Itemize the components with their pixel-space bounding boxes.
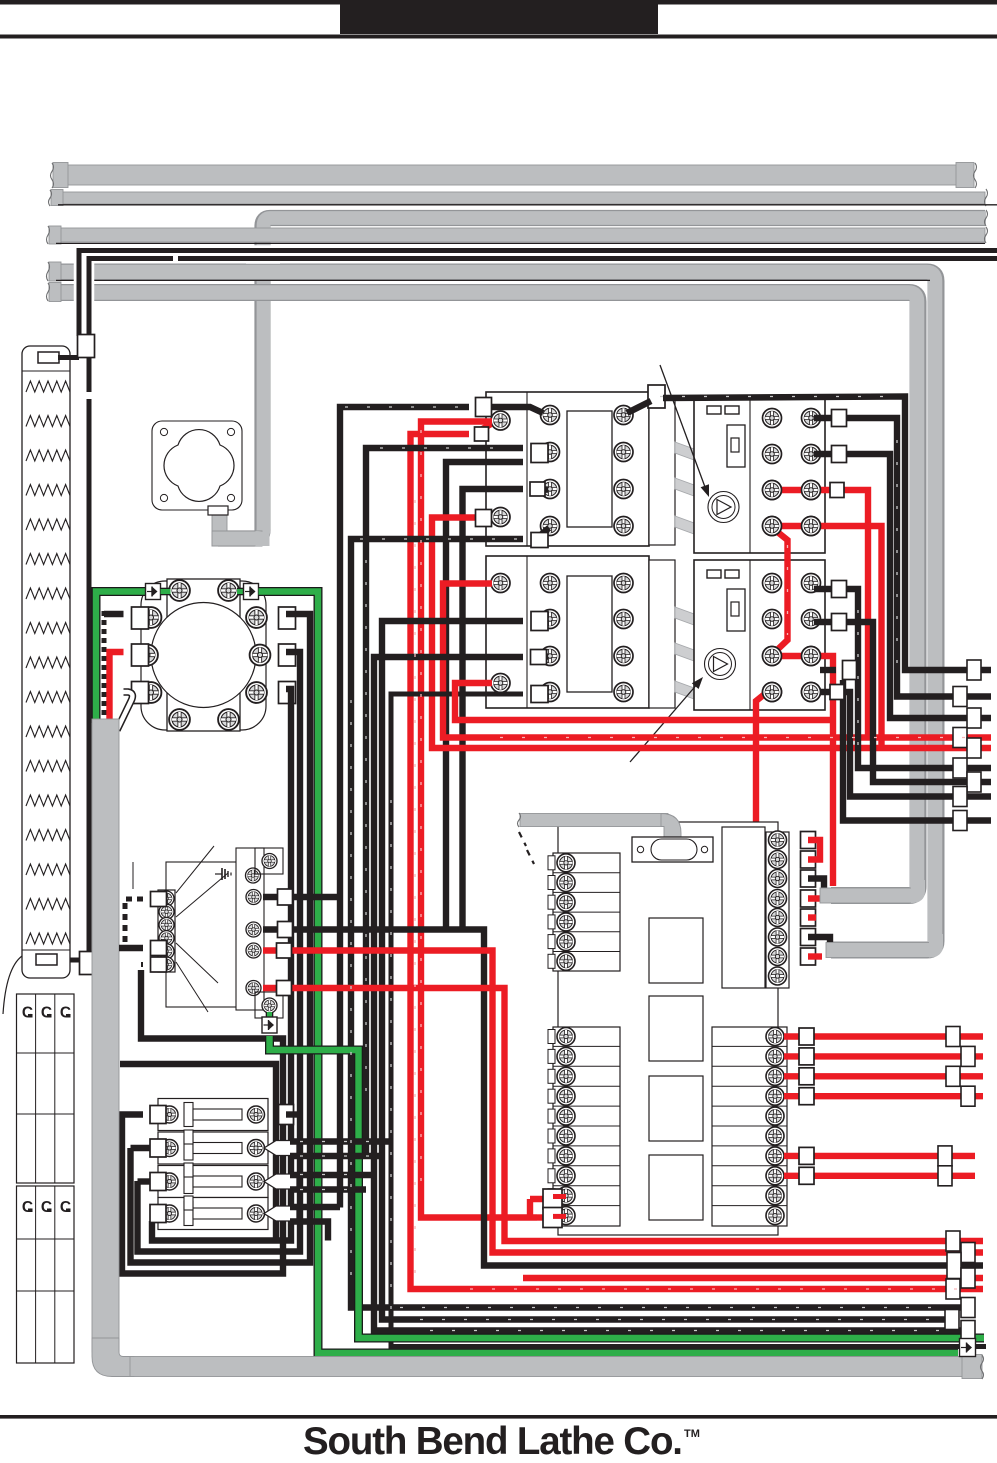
- sub-board green ground connector: [262, 1017, 277, 1033]
- top black feeder wire W2 upper run: [89, 259, 997, 393]
- bottom stub B3 black: [947, 1253, 961, 1279]
- cable gland plate: [632, 837, 713, 862]
- motor left black wire row1: [104, 611, 124, 617]
- OL1 right connector boxes: [832, 410, 847, 427]
- contactor K2 screws right col: [614, 574, 633, 593]
- board upper-left strip tabs: [548, 856, 555, 870]
- right stub J6: [953, 758, 967, 778]
- fuse holder F3 left connector: [150, 1173, 166, 1191]
- contactor K2 screws left col: [541, 574, 560, 593]
- contactor K1 body: [486, 392, 649, 546]
- motor green inline connector right: [244, 584, 259, 600]
- fuse holder F1 clip: [184, 1103, 193, 1127]
- motor ground wire green left riser: [96, 592, 146, 724]
- motor left white wire row3: [117, 692, 132, 730]
- motor center housing: [167, 579, 240, 731]
- wire K1 row1 black to vertical x340: [340, 407, 469, 1208]
- board row6 black into tube2: [808, 937, 830, 947]
- OL2 indicator windows: [707, 570, 721, 578]
- right stub R3: [946, 1066, 960, 1086]
- svg-text:C: C: [22, 1005, 33, 1022]
- contactor K1 screws right col: [614, 406, 633, 425]
- board upper-left terminal strip: [553, 853, 620, 971]
- sub-board outline: [166, 862, 238, 1007]
- clover plate bottom tab: [208, 506, 228, 515]
- sub-board leader lines: [176, 846, 214, 893]
- right stub J7: [967, 772, 981, 792]
- right stub J4 red: [953, 728, 967, 748]
- board lower-right terminal strip: [712, 1027, 787, 1226]
- board upper-right terminal strip: [766, 832, 789, 988]
- motor right connector boxes: [279, 607, 296, 629]
- cable A right cap: [956, 163, 974, 188]
- ballast zigzag elements: [26, 381, 70, 944]
- motor right black wire row2: [138, 652, 301, 1252]
- fuse F1 right wire: [286, 1111, 301, 1117]
- clover mount plate: [152, 421, 242, 510]
- right stub J1: [967, 660, 981, 680]
- OL1 screws left col: [763, 409, 782, 428]
- board gray feed cable: [520, 814, 668, 827]
- K1 coil wire to right drop: [627, 401, 651, 413]
- OL1 row2 black wire right: [814, 454, 991, 718]
- right stub J2: [953, 687, 967, 707]
- dash texture overlays: [345, 406, 465, 408]
- header rule line: [0, 35, 997, 39]
- right stub R5: [938, 1146, 952, 1166]
- ballast top terminal wire: [58, 355, 79, 360]
- motor left red wire row2: [110, 652, 124, 723]
- fuse F2 left wire: [131, 1145, 151, 1151]
- board relay window 1: [649, 918, 703, 983]
- thin rule under cable B: [58, 204, 997, 206]
- fuse F3 lug: [264, 1174, 297, 1189]
- ballast inner top line: [22, 370, 70, 372]
- green wire B run: [270, 1036, 985, 1338]
- motor left connector boxes: [132, 607, 149, 629]
- ballast top terminal lug: [38, 352, 59, 363]
- wire K1 row4 red: [432, 518, 991, 749]
- bottom stub B7 black: [945, 1310, 959, 1330]
- clover plate corner screws: [160, 428, 167, 435]
- bottom stub B6 black: [961, 1298, 975, 1318]
- fuse holder F4 body: [158, 1198, 268, 1230]
- screws redrawn over OL wires: [802, 481, 821, 500]
- top black feeder wire W2 lower run: [55, 399, 89, 960]
- fuse holder F4 left connector: [150, 1205, 166, 1223]
- wire K1 row4 link to screw: [481, 514, 490, 521]
- fuse holder F4 right screw: [248, 1205, 265, 1222]
- clover cutout: [164, 430, 234, 502]
- bottom stub B1 red: [946, 1231, 960, 1251]
- wire K2 row4 black: [391, 694, 986, 1347]
- board row5 red stub: [808, 914, 816, 920]
- sub-board wire to fuse loop: [141, 962, 143, 967]
- sub-board earth symbol: [221, 868, 223, 880]
- right stub J9: [953, 811, 967, 831]
- wire K2 row2 black: [382, 621, 959, 1320]
- bottom stub B2 red: [961, 1243, 975, 1263]
- contactor K1 coil terminal box: [648, 385, 665, 408]
- svg-text:TM: TM: [684, 1428, 700, 1440]
- OL2 row4 black wire right: [814, 692, 991, 797]
- motor ground wire green to right riser: [259, 592, 959, 1354]
- sub-board black wire row929 to x484: [263, 930, 983, 1266]
- right stub R1: [946, 1027, 960, 1047]
- contactor K2 body: [486, 556, 649, 708]
- right stub J3: [967, 708, 981, 728]
- wire K1 row2 black: [366, 448, 523, 1157]
- wire K1 row2 red: [411, 434, 984, 1289]
- cable B horizontal: [58, 192, 985, 204]
- OL2 row4 red drop: [756, 689, 771, 831]
- board lower-left strip tabs: [548, 1030, 555, 1044]
- fuse holder F1 right screw: [248, 1106, 265, 1123]
- cable D left cap: [49, 226, 61, 244]
- OL1 reset switch: [727, 425, 745, 467]
- fuse F3 left wire: [138, 1178, 151, 1184]
- ballast inner bottom line: [22, 949, 70, 951]
- fuse holder F1 body: [158, 1099, 268, 1131]
- board jumper red rows1-2: [808, 840, 820, 860]
- sub-board right terminal stack: [236, 848, 264, 1010]
- contactor K1 coil window: [567, 411, 612, 527]
- right stub R6: [938, 1166, 952, 1186]
- arc from ballast to left margin: [3, 956, 22, 1014]
- svg-text:C: C: [60, 1005, 71, 1022]
- wire red to stub row 1278: [523, 1275, 983, 1281]
- contactor K1 pole column: [649, 397, 675, 545]
- wire K1 row5 black dashed: [351, 539, 975, 1308]
- cable A horizontal: [60, 165, 962, 185]
- ballast top connector box: [78, 335, 95, 358]
- sub-board black wire into conduit: [119, 945, 143, 951]
- box stubs K1 to screws: [538, 449, 548, 456]
- connector boxes K1 left edge: [476, 398, 492, 417]
- overload OL1 body: [694, 396, 825, 553]
- board row3 black into tube1: [808, 879, 824, 892]
- svg-text:C: C: [41, 1199, 52, 1216]
- fuse grid upper table: [17, 994, 75, 1183]
- fuse holder F2 left screw: [161, 1140, 178, 1157]
- sub-board left terminal strip: [158, 890, 175, 972]
- cable C horizontal and riser to clover plate: [218, 218, 985, 539]
- fuse holder F1 cartridge: [193, 1109, 242, 1120]
- board lower-right red wires to right stubs: [784, 1033, 983, 1039]
- OL2 screws left col: [763, 574, 782, 593]
- fuse F2 lug: [264, 1141, 297, 1156]
- wire K1 row3a black: [446, 462, 523, 929]
- connector boxes K2 left edge: [531, 612, 548, 631]
- fuse holder F4 left screw: [161, 1205, 178, 1222]
- wire K2 row1 red: [443, 584, 991, 738]
- sub-board red wire row988: [263, 988, 983, 1241]
- footer rule: [0, 1415, 997, 1419]
- fuse holder F3 cartridge: [193, 1176, 242, 1187]
- K2 mechanical link stripes: [675, 607, 694, 625]
- cable F horizontal with right drop to tube1: [56, 293, 918, 896]
- right stub J5 red: [967, 738, 981, 758]
- gray tube1 to drop1: [820, 888, 912, 903]
- contactor K1 aux screws far-left: [491, 411, 510, 430]
- fuse holder F1 left screw: [161, 1106, 178, 1123]
- board relay window 2: [649, 996, 703, 1061]
- OL2 row3 red wire to board tube1: [777, 656, 833, 886]
- board row4 red from tube1: [808, 895, 833, 901]
- contactor K2 coil window: [567, 576, 612, 692]
- fuse holder F4 cartridge: [193, 1208, 242, 1219]
- overload OL2 body: [694, 560, 825, 710]
- fuse holder F2 left connector: [150, 1139, 166, 1157]
- OL1 row3 red wire right: [777, 490, 868, 738]
- bottom stub B8 black: [961, 1321, 975, 1341]
- cable E left cap: [49, 262, 61, 281]
- board bottom-left red connectors: [530, 1196, 553, 1202]
- contactor K2 aux screws far-left: [491, 574, 510, 593]
- sub-board right connector boxes: [278, 889, 293, 905]
- OL2 screws right col: [802, 574, 821, 593]
- right stub R2: [961, 1046, 975, 1066]
- OL1 indicator windows: [707, 406, 721, 414]
- gray tube2 to drop2: [826, 943, 930, 958]
- fuse F4 lug wires: [290, 1204, 340, 1210]
- board relay window 3: [649, 1076, 703, 1141]
- sub-board left connector boxes: [151, 892, 167, 907]
- overload OL2 divider: [749, 560, 751, 710]
- white casing for feeder crossings: [74, 246, 85, 306]
- fuse holder F3 left screw: [161, 1173, 178, 1190]
- bottom stub B5 red: [946, 1279, 960, 1299]
- green ground connector bottom right: [960, 1339, 976, 1357]
- sub-board dashed wire to conduit: [125, 899, 143, 948]
- bottom stub B4 red: [961, 1268, 975, 1288]
- sub-board green ground drop: [266, 1012, 274, 1018]
- ballast bottom connector box: [80, 952, 97, 975]
- header black title bar: [340, 0, 658, 34]
- svg-text:C: C: [60, 1199, 71, 1216]
- OL2 row2 black wire right: [814, 622, 991, 782]
- right stub R4: [961, 1086, 975, 1106]
- fuse F3 lug wires: [290, 1172, 374, 1178]
- thin rule under cable E: [56, 279, 930, 281]
- cable E horizontal with right drop to tube2: [56, 272, 936, 950]
- board row7 red into tube2: [808, 953, 822, 959]
- OL1 row1 black wire right: [814, 418, 991, 697]
- wire K1 row1 link to screw: [477, 407, 543, 413]
- fuse holder F2 body: [158, 1132, 268, 1164]
- motor conduit bottom elbow: [92, 1338, 134, 1377]
- OL1 screws right col: [802, 409, 821, 428]
- wire K1 row2 link to screw: [479, 424, 491, 431]
- clover plate tube elbow to riser: [212, 531, 262, 546]
- thin rule under cable D: [56, 242, 985, 244]
- svg-text:South Bend Lathe Co.: South Bend Lathe Co.: [303, 1420, 683, 1458]
- motor conduit gray tube: [92, 719, 119, 1352]
- clover plate tube stub down: [212, 510, 227, 546]
- fuse F4 lug: [264, 1206, 297, 1221]
- contactor K1 screws left col: [541, 406, 560, 425]
- wire hop gap on W2: [86, 393, 93, 398]
- terminal board outline: [558, 822, 778, 1235]
- wire K1 row1 red: [421, 422, 537, 1218]
- motor dashed drop to conduit: [102, 611, 107, 723]
- OL2 row1 black wire right: [814, 589, 991, 768]
- box stubs K2 to screws: [539, 616, 548, 623]
- fuse F1 right connector box: [279, 1105, 294, 1125]
- OL1 row4 red wire right: [777, 526, 882, 748]
- cable B left cap: [51, 190, 63, 206]
- right stub J8: [953, 787, 967, 807]
- fuse holder F1 left connector: [150, 1106, 166, 1124]
- board upper-right module box: [722, 827, 765, 988]
- fuse grid lower table: [17, 1186, 75, 1363]
- sub-board black wire row897 to x340: [263, 894, 340, 900]
- cable A left cap: [53, 163, 68, 188]
- OL2 trip dial: [705, 649, 736, 680]
- fuse holder F2 clip: [184, 1136, 193, 1160]
- motor green link left: [161, 588, 171, 596]
- wire K2 row5 red: [455, 683, 833, 720]
- motor green link right: [237, 588, 244, 596]
- board lower-right connector boxes: [799, 1028, 814, 1045]
- motor body outline: [141, 581, 266, 730]
- K1 leader line to OL1 dial: [660, 365, 705, 487]
- motor screws: [169, 580, 190, 601]
- fuse holder F2 cartridge: [193, 1143, 242, 1154]
- bottom gray cable right cap: [962, 1355, 982, 1379]
- motor main circle: [151, 603, 256, 708]
- svg-text:C: C: [41, 1005, 52, 1022]
- svg-text:C: C: [22, 1199, 33, 1216]
- ballast bottom terminal lug: [36, 954, 57, 965]
- contactor K2 pole column: [649, 560, 675, 708]
- fuse holder F2 right screw: [248, 1140, 265, 1157]
- OL2 aux connector box and drop: [820, 667, 836, 673]
- motor green inline connector left: [146, 584, 161, 600]
- K2 leader line to OL2 dial: [630, 682, 699, 762]
- board upper-right connector boxes: [801, 832, 816, 849]
- OL2 reset switch: [727, 589, 745, 631]
- board relay window 4: [649, 1155, 703, 1220]
- fuse holder F3 clip: [184, 1170, 193, 1194]
- wire K1 row3b black: [463, 489, 524, 929]
- OL1 trip dial: [708, 492, 739, 523]
- cable F left cap: [49, 283, 61, 302]
- board gray feed dashes: [519, 832, 526, 846]
- motor right black wire row1: [131, 614, 311, 1263]
- motor right black wire row3: [152, 689, 291, 1241]
- fuse inter-holder clips: [184, 1130, 193, 1144]
- fuse holder F3 right screw: [248, 1173, 265, 1190]
- red link OL1 to OL2: [775, 530, 788, 651]
- OL2 right connector boxes: [832, 581, 847, 598]
- bottom gray cable run: [130, 1357, 968, 1377]
- ballast resistor box outline: [22, 346, 70, 978]
- board lower-left terminal strip: [553, 1027, 620, 1226]
- contactor K1 inner divider: [526, 392, 528, 546]
- contactor K2 inner divider: [526, 556, 528, 708]
- page top border line: [0, 0, 997, 5]
- wire K2 row3 black: [374, 657, 975, 1331]
- top black feeder wire W1: [79, 251, 997, 337]
- cable D horizontal: [56, 228, 985, 242]
- K1 mechanical link stripes: [675, 442, 694, 460]
- fuse holder H1 loop wire: [122, 970, 283, 1274]
- sub-board red wire row951: [263, 951, 983, 1253]
- overload OL1 divider: [749, 396, 751, 553]
- fuse F2 lug wires: [290, 1138, 391, 1144]
- sub-board right screws: [262, 854, 277, 869]
- fuse holder F4 clip: [184, 1202, 193, 1226]
- conduit branch wire to fuse area: [120, 1064, 276, 1241]
- fuse holder F3 body: [158, 1166, 268, 1198]
